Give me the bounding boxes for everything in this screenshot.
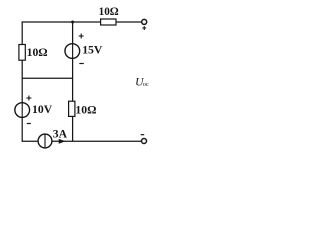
- node junction (top rail / middle branch): [71, 21, 74, 24]
- svg-text:10Ω: 10Ω: [99, 6, 119, 18]
- svg-text:10Ω: 10Ω: [75, 103, 96, 116]
- svg-text:10V: 10V: [32, 103, 53, 116]
- voltage source 15V: [65, 34, 103, 64]
- wire middle horizontal tie: [22, 77, 72, 79]
- resistor 10Ω (middle, vertical): [69, 101, 97, 116]
- current source 3A: [38, 128, 68, 148]
- resistor 10Ω (left, vertical): [19, 45, 48, 61]
- wire middle branch: [72, 22, 74, 141]
- svg-text:15V: 15V: [82, 44, 103, 57]
- resistor 10Ω (top, horizontal): [99, 6, 119, 25]
- svg-text:10Ω: 10Ω: [27, 46, 48, 59]
- wire bottom (node b rail): [22, 140, 141, 142]
- node label Uoc (open-circuit voltage): [135, 76, 149, 89]
- svg-text:oc: oc: [143, 81, 149, 88]
- voltage source 10V: [15, 96, 53, 124]
- svg-text:3A: 3A: [53, 128, 68, 141]
- wire left branch: [21, 21, 23, 141]
- wire top (node a rail): [22, 21, 141, 23]
- terminal + (top right, open circle): [142, 19, 147, 30]
- terminal - (bottom right, open circle): [141, 135, 147, 144]
